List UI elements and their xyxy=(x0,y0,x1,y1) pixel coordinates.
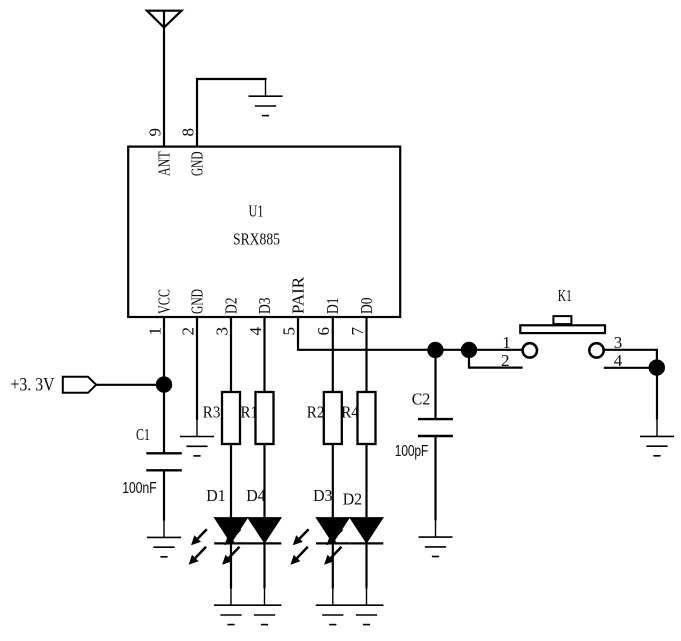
wire pin 6 to R2 xyxy=(332,317,334,392)
ground (top, pin 8) xyxy=(249,80,283,116)
svg-text:VCC: VCC xyxy=(155,289,174,314)
svg-text:D2: D2 xyxy=(343,490,362,509)
ground (C2) xyxy=(419,521,453,557)
wire R1 to D4 xyxy=(263,444,265,518)
resistor R2 xyxy=(324,392,342,444)
wire D2 to ground xyxy=(365,543,367,588)
svg-text:9: 9 xyxy=(145,128,164,137)
K1 contact circle left xyxy=(523,343,537,357)
ground (D3) xyxy=(316,589,350,625)
LED D4 xyxy=(222,518,281,565)
wire pin 2 GND down xyxy=(196,317,198,420)
node PAIR/C2 junction dot xyxy=(427,342,443,358)
wire pin 1 VCC down to C1 xyxy=(163,317,165,453)
svg-text:R3: R3 xyxy=(203,403,221,422)
power flag +3.3V xyxy=(63,377,96,393)
antenna E1 xyxy=(147,11,182,28)
ground (C1) xyxy=(147,521,181,557)
switch K1 button bump xyxy=(553,316,571,324)
svg-text:7: 7 xyxy=(348,327,367,336)
resistor R1 xyxy=(256,392,274,444)
svg-text:SRX885: SRX885 xyxy=(233,229,280,248)
node K1 pin3/4 junction dot xyxy=(649,359,665,375)
svg-text:R1: R1 xyxy=(241,403,259,422)
wire R3 to D1 xyxy=(230,444,232,518)
wire R2 to D3 xyxy=(332,444,334,518)
svg-text:D1: D1 xyxy=(323,298,342,315)
wire pin 8 up xyxy=(197,79,267,147)
ground (K1) xyxy=(640,420,674,456)
node VCC junction dot xyxy=(156,376,172,392)
svg-text:1: 1 xyxy=(145,327,164,336)
svg-text:2: 2 xyxy=(501,351,510,370)
resistor R3 xyxy=(222,392,240,444)
svg-text:C1: C1 xyxy=(136,425,150,444)
svg-text:4: 4 xyxy=(246,327,265,336)
wire C1 down xyxy=(163,470,165,521)
svg-text:100pF: 100pF xyxy=(395,443,428,460)
svg-text:5: 5 xyxy=(279,327,298,336)
wire D4 to ground xyxy=(263,543,265,588)
svg-text:D3: D3 xyxy=(313,486,332,505)
ground (D1) xyxy=(214,589,248,625)
wire C2 branch down xyxy=(434,350,436,419)
svg-text:D3: D3 xyxy=(255,298,274,315)
svg-text:8: 8 xyxy=(178,128,197,137)
wire C2 down xyxy=(434,436,436,521)
svg-text:6: 6 xyxy=(314,327,333,336)
capacitor C2 xyxy=(418,418,453,420)
wire K1 pin 4 stub xyxy=(604,367,657,369)
LED D1 xyxy=(189,518,248,565)
wire +3.3V to VCC xyxy=(96,384,164,386)
svg-text:D0: D0 xyxy=(357,298,376,315)
svg-text:+3. 3V: +3. 3V xyxy=(11,376,56,396)
svg-text:100nF: 100nF xyxy=(122,480,156,497)
svg-text:R4: R4 xyxy=(341,403,359,422)
wire R4 to D2 xyxy=(365,444,367,518)
svg-text:3: 3 xyxy=(212,327,231,336)
svg-text:C2: C2 xyxy=(412,390,431,409)
svg-text:2: 2 xyxy=(178,327,197,336)
ground (pin 2) xyxy=(180,420,214,456)
svg-text:K1: K1 xyxy=(558,286,572,305)
ground (D4) xyxy=(248,589,282,625)
wire pin 3 to R3 xyxy=(230,317,232,392)
wire antenna to pin 9 xyxy=(163,11,165,147)
wire pin 4 to R1 xyxy=(263,317,265,392)
svg-text:R2: R2 xyxy=(307,403,325,422)
wire pin 7 to R4 xyxy=(365,317,367,392)
svg-text:GND: GND xyxy=(188,289,207,314)
svg-text:D2: D2 xyxy=(222,298,241,315)
svg-text:GND: GND xyxy=(188,152,207,177)
wire K1 to ground xyxy=(656,368,658,420)
wire D3 to ground xyxy=(332,543,334,588)
wire K1 pin 3 right xyxy=(603,350,657,368)
svg-text:PAIR: PAIR xyxy=(289,276,308,314)
svg-text:D4: D4 xyxy=(246,486,266,505)
resistor R4 xyxy=(358,392,376,444)
svg-text:U1: U1 xyxy=(249,202,264,221)
wire pin 5 PAIR down and right xyxy=(298,317,523,350)
switch K1 body xyxy=(520,325,605,333)
LED D2 xyxy=(324,518,383,565)
ground (D2) xyxy=(350,589,384,625)
wire K1 pin 2 stub xyxy=(469,350,523,368)
K1 contact circle right xyxy=(589,343,603,357)
svg-text:D1: D1 xyxy=(206,486,225,505)
LED D3 xyxy=(290,518,349,565)
node K1 pin1/2 junction dot xyxy=(461,342,477,358)
svg-text:1: 1 xyxy=(502,333,511,352)
svg-text:ANT: ANT xyxy=(155,151,174,176)
IC U1 SRX885 body xyxy=(128,147,400,317)
capacitor C1 xyxy=(146,452,182,454)
wire D1 to ground xyxy=(230,543,232,588)
